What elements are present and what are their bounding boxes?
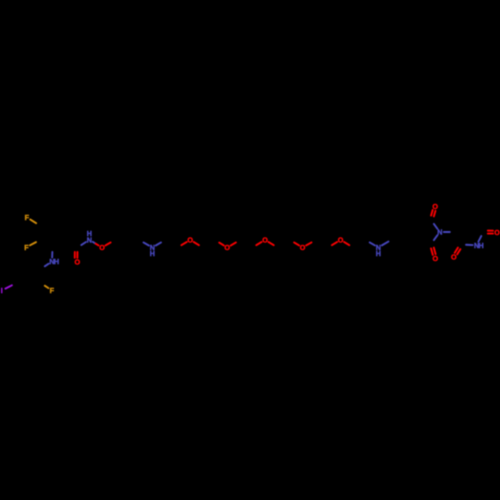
svg-text:H: H xyxy=(478,241,483,250)
bond C4b-C3a xyxy=(405,239,418,246)
bond C5b-C4b xyxy=(392,239,405,246)
bond rC3-F2 xyxy=(30,242,36,245)
bond C7b-C6b xyxy=(392,218,405,225)
bond cc9-O4 xyxy=(256,242,261,245)
bond cc14-cc15 xyxy=(353,240,366,247)
bond N1-pC1 xyxy=(45,264,49,267)
bond cc1-cc2 xyxy=(115,240,128,247)
bond pC4-pC5 xyxy=(15,269,17,284)
bond N4-C4g xyxy=(478,236,481,242)
bond cC-Nam xyxy=(81,242,86,245)
svg-text:F: F xyxy=(25,213,30,222)
bond rC2-rC3 xyxy=(40,240,53,248)
bond cc7-O3 xyxy=(219,243,224,246)
bond pC2-pC3 xyxy=(28,283,41,290)
double bond Ctop=Otop xyxy=(431,210,435,216)
bond rC2-N1 xyxy=(51,252,53,258)
svg-text:O: O xyxy=(433,254,439,263)
bond rC1-cC xyxy=(65,240,78,248)
bond O4-cc10 xyxy=(268,242,273,245)
bond O2-cc6 xyxy=(194,242,199,245)
double bond cC=Oam xyxy=(75,252,78,258)
double bond Cbot=Obot xyxy=(431,248,436,255)
svg-text:F: F xyxy=(24,243,29,252)
svg-text:O: O xyxy=(451,253,457,262)
double bond C4g=Og4 xyxy=(488,231,493,234)
bond pC3-pC4 xyxy=(16,283,29,290)
svg-text:O: O xyxy=(99,243,105,252)
svg-text:O: O xyxy=(300,243,306,252)
bond cc8-cc9 xyxy=(240,240,253,247)
svg-text:O: O xyxy=(262,235,268,244)
bond pC2-F3 xyxy=(45,286,49,288)
svg-text:I: I xyxy=(1,286,3,295)
svg-text:O: O xyxy=(75,257,81,266)
svg-text:H: H xyxy=(150,249,155,258)
bond rC6-rC1 xyxy=(64,226,66,241)
bond rC4-F1 xyxy=(30,219,36,223)
svg-text:O: O xyxy=(224,243,230,252)
bond cc13-O6 xyxy=(332,242,337,245)
svg-text:O: O xyxy=(187,235,193,244)
bond cc3-N2 xyxy=(144,242,149,245)
bond Ctop-Np xyxy=(434,224,438,229)
bond C7a-C7b xyxy=(405,218,418,225)
svg-text:O: O xyxy=(338,235,344,244)
bond cc4-cc5 xyxy=(165,240,178,247)
bond rC1-rC2 xyxy=(53,240,66,248)
bond cc5-O2 xyxy=(181,242,186,245)
bond cc10-cc11 xyxy=(278,240,291,247)
bond Cbot-C3a xyxy=(417,239,431,243)
bond N2-cc4 xyxy=(156,242,161,245)
bond O1-cc1 xyxy=(105,242,110,245)
bond O5-cc12 xyxy=(306,242,311,245)
bond rC4-rC5 xyxy=(40,218,53,226)
bond C2g-N4 xyxy=(466,244,473,246)
bond C3a-C7a xyxy=(416,225,418,240)
bond pC4-I1 xyxy=(5,285,12,288)
svg-text:O: O xyxy=(432,202,438,211)
bond C7a-Ctop xyxy=(417,220,431,224)
bond Ca-C2g xyxy=(454,232,461,245)
svg-text:O: O xyxy=(494,228,500,237)
bond N3-C5b xyxy=(382,242,389,246)
bond rC3-rC4 xyxy=(39,226,41,241)
svg-text:H: H xyxy=(376,249,381,258)
bond pC6-pC1 xyxy=(28,262,41,269)
svg-text:H: H xyxy=(87,229,92,238)
svg-text:N: N xyxy=(437,228,442,237)
bond Nam-O1 xyxy=(93,242,99,246)
bond C4g-C5g xyxy=(476,219,483,232)
bond pC5-pC6 xyxy=(16,262,29,269)
bond C6b-C5b xyxy=(391,225,393,240)
bond rC5-rC6 xyxy=(53,218,66,226)
bond cc2-cc3 xyxy=(127,240,140,247)
bond O6-cc14 xyxy=(344,242,349,245)
svg-text:H: H xyxy=(54,257,59,266)
bond pC1-pC2 xyxy=(40,269,42,284)
double bond C2g=Og2 xyxy=(455,248,461,255)
bond cc11-O5 xyxy=(294,242,299,245)
bond cc15-N3 xyxy=(370,242,375,245)
svg-text:F: F xyxy=(50,286,55,295)
bond C6g-Ca xyxy=(454,219,461,232)
bond Np-Ca xyxy=(444,231,450,233)
bond cc12-cc13 xyxy=(315,240,328,247)
bond C5g-C6g xyxy=(462,218,477,220)
bond Np-Cbot xyxy=(434,235,438,240)
bond O3-cc8 xyxy=(231,242,236,245)
bond cc6-cc7 xyxy=(203,240,216,247)
